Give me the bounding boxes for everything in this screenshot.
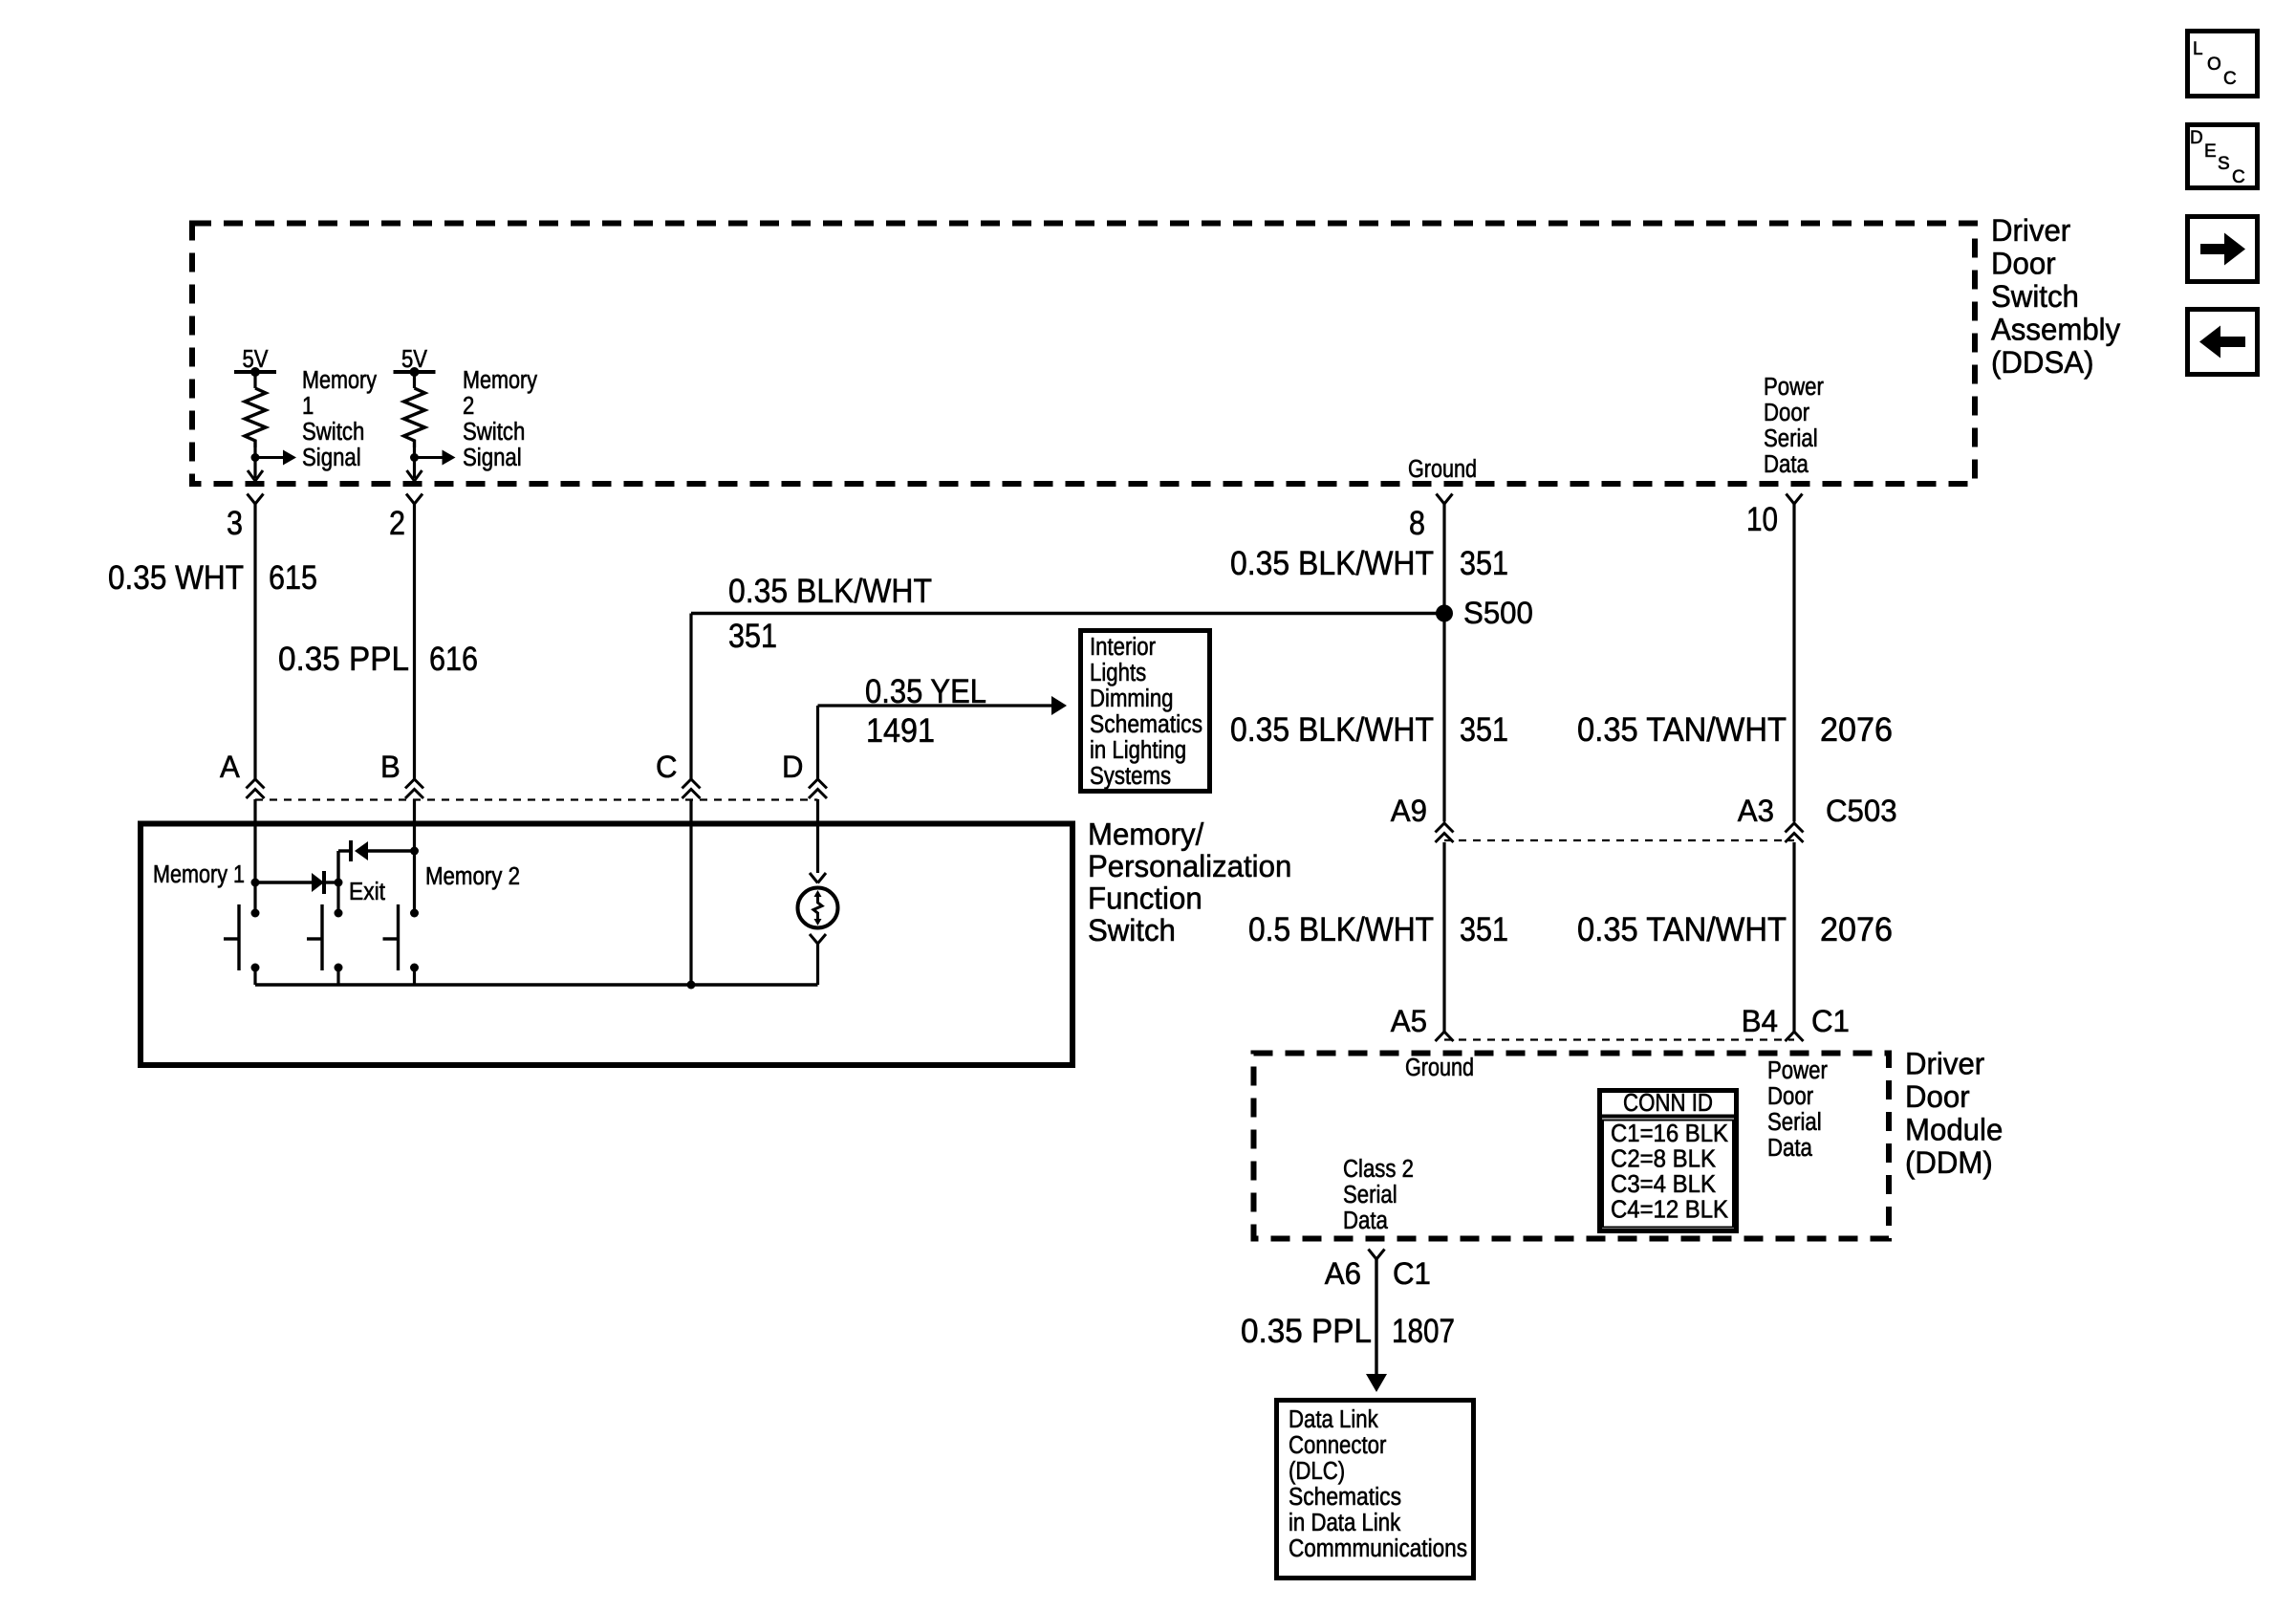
pin 2 connector fork bbox=[406, 494, 422, 505]
svg-text:2: 2 bbox=[463, 393, 474, 420]
illumination lamp bbox=[798, 888, 838, 928]
lamp connector fork lower bbox=[810, 934, 826, 944]
svg-text:2076: 2076 bbox=[1820, 711, 1893, 749]
resistor R2 Memory 2 pull-up bbox=[394, 370, 436, 374]
junction node Exit top / D1 bbox=[335, 879, 343, 887]
connector pin D chevrons bbox=[809, 779, 827, 789]
svg-text:Interior: Interior bbox=[1090, 634, 1156, 661]
legend box LOC bbox=[2188, 32, 2258, 97]
svg-text:Switch: Switch bbox=[1088, 913, 1176, 947]
svg-text:Memory 1: Memory 1 bbox=[153, 861, 245, 888]
svg-text:351: 351 bbox=[1460, 545, 1508, 582]
svg-text:2: 2 bbox=[389, 505, 405, 542]
wire A inside switch box bbox=[253, 799, 256, 913]
svg-text:C503: C503 bbox=[1826, 794, 1897, 828]
svg-text:B: B bbox=[380, 750, 401, 784]
connector A9 chevrons bbox=[1436, 823, 1454, 833]
wire D lower stub bbox=[816, 944, 819, 985]
svg-text:Schematics: Schematics bbox=[1090, 711, 1202, 738]
svg-text:Memory: Memory bbox=[463, 367, 537, 394]
svg-text:351: 351 bbox=[728, 618, 777, 655]
svg-text:Module: Module bbox=[1905, 1113, 2003, 1147]
svg-text:Assembly: Assembly bbox=[1991, 313, 2121, 347]
switch SW2 bottom stub bbox=[336, 968, 339, 985]
svg-text:Door: Door bbox=[1767, 1083, 1814, 1110]
connector pin B chevrons bbox=[405, 779, 423, 789]
switch SW3 bottom stub bbox=[413, 968, 416, 985]
switch SW2 Exit pushbutton contacts bbox=[336, 882, 339, 913]
svg-text:Serial: Serial bbox=[1764, 425, 1818, 452]
svg-text:D: D bbox=[2190, 128, 2203, 148]
svg-text:S500: S500 bbox=[1463, 596, 1533, 630]
wire B inside switch box bbox=[413, 799, 416, 913]
diode D1 cathode wire bbox=[324, 881, 338, 883]
svg-text:0.35 PPL: 0.35 PPL bbox=[1241, 1313, 1372, 1350]
connector row dashed line A-D bbox=[255, 798, 818, 800]
svg-text:Dimming: Dimming bbox=[1090, 686, 1174, 712]
junction node wire A / diode D1 bbox=[251, 879, 260, 887]
svg-text:0.35 TAN/WHT: 0.35 TAN/WHT bbox=[1577, 711, 1787, 749]
splice S500 bbox=[1436, 605, 1453, 622]
svg-text:Ground: Ground bbox=[1405, 1055, 1474, 1081]
wire 615 segment pin3-A bbox=[253, 504, 256, 779]
wire 351 segment A9-A5 bbox=[1442, 842, 1445, 1032]
pin 8 connector fork bbox=[1437, 494, 1453, 505]
CONN ID body frame bbox=[1603, 1121, 1733, 1228]
svg-text:E: E bbox=[2204, 142, 2217, 162]
svg-text:2076: 2076 bbox=[1820, 911, 1893, 948]
svg-text:Class 2: Class 2 bbox=[1343, 1156, 1414, 1183]
svg-text:Serial: Serial bbox=[1343, 1182, 1397, 1208]
svg-text:CONN ID: CONN ID bbox=[1623, 1090, 1713, 1117]
svg-text:Switch: Switch bbox=[1991, 279, 2079, 314]
connector A3 chevrons bbox=[1786, 823, 1804, 833]
svg-text:A: A bbox=[220, 750, 240, 784]
svg-text:0.35 BLK/WHT: 0.35 BLK/WHT bbox=[728, 573, 932, 610]
svg-text:B4: B4 bbox=[1742, 1004, 1778, 1038]
diode D1 bbox=[312, 873, 324, 892]
diode D2 corner wire bbox=[338, 849, 351, 852]
CONN ID table frame bbox=[1600, 1091, 1737, 1231]
svg-text:Systems: Systems bbox=[1090, 763, 1171, 790]
svg-text:in Lighting: in Lighting bbox=[1090, 737, 1186, 764]
svg-text:3: 3 bbox=[227, 505, 243, 542]
svg-text:1: 1 bbox=[302, 393, 314, 420]
wire 616 segment pin2-B bbox=[413, 504, 416, 779]
svg-text:Driver: Driver bbox=[1905, 1047, 1984, 1081]
svg-text:0.35 YEL: 0.35 YEL bbox=[865, 673, 986, 710]
svg-text:Door: Door bbox=[1764, 400, 1810, 426]
diode D2 anode wire bbox=[368, 849, 415, 852]
svg-text:Ground: Ground bbox=[1408, 456, 1477, 483]
Driver Door Switch Assembly (DDSA) dashed outline bbox=[192, 224, 1975, 485]
switch SW3 Memory 2 pushbutton bbox=[410, 909, 419, 918]
svg-text:1807: 1807 bbox=[1392, 1313, 1455, 1350]
svg-text:C1: C1 bbox=[1393, 1256, 1431, 1291]
svg-text:(DDM): (DDM) bbox=[1905, 1145, 1993, 1180]
svg-text:351: 351 bbox=[1460, 711, 1508, 749]
wire 351 horizontal branch S500-C bbox=[691, 612, 1444, 616]
wire 1491 segment D vertical bbox=[816, 706, 819, 779]
diode D1 anode wire bbox=[255, 881, 312, 883]
Memory/Personalization Function Switch box bbox=[141, 824, 1072, 1066]
svg-text:A9: A9 bbox=[1391, 794, 1427, 828]
svg-text:(DDSA): (DDSA) bbox=[1991, 345, 2094, 380]
svg-text:Personalization: Personalization bbox=[1088, 849, 1291, 883]
svg-text:0.35 BLK/WHT: 0.35 BLK/WHT bbox=[1230, 545, 1434, 582]
svg-text:Memory: Memory bbox=[302, 367, 377, 394]
svg-text:Driver: Driver bbox=[1991, 213, 2070, 248]
svg-text:C1: C1 bbox=[1811, 1004, 1850, 1038]
wire 1491 horizontal segment bbox=[818, 704, 1052, 707]
svg-text:0.35 WHT: 0.35 WHT bbox=[108, 559, 244, 597]
lamp connector fork upper bbox=[810, 873, 826, 883]
DDM connector dashed line bbox=[1444, 1038, 1794, 1040]
wire 1807 segment bbox=[1375, 1259, 1377, 1375]
svg-text:Power: Power bbox=[1764, 374, 1824, 401]
svg-text:C3=4 BLK: C3=4 BLK bbox=[1611, 1171, 1716, 1198]
svg-text:C2=8 BLK: C2=8 BLK bbox=[1611, 1146, 1716, 1173]
svg-text:Commmunications: Commmunications bbox=[1289, 1535, 1467, 1562]
Driver Door Module (DDM) dashed outline bbox=[1254, 1054, 1890, 1239]
wire D inside switch box upper bbox=[816, 799, 819, 873]
legend right-arrow button bbox=[2188, 217, 2258, 282]
wire C inside switch box bbox=[689, 799, 692, 985]
svg-text:Data: Data bbox=[1764, 451, 1809, 478]
wire 351 segment pin8-S500 bbox=[1442, 504, 1445, 614]
diode D2 bbox=[355, 841, 368, 860]
wire 2076 segment pin10-A3 bbox=[1792, 504, 1795, 822]
svg-text:Door: Door bbox=[1991, 247, 2056, 281]
connector pin C chevrons bbox=[682, 779, 701, 789]
switch common bottom wire bbox=[255, 983, 818, 986]
svg-text:616: 616 bbox=[429, 641, 478, 678]
svg-text:Memory/: Memory/ bbox=[1088, 817, 1204, 852]
arrow to Interior Lights Dimming schematic bbox=[1051, 696, 1067, 715]
svg-text:Data: Data bbox=[1343, 1208, 1389, 1234]
svg-text:O: O bbox=[2207, 54, 2221, 75]
svg-text:Power: Power bbox=[1767, 1057, 1828, 1084]
resistor R1 Memory 1 pull-up bbox=[234, 370, 276, 374]
svg-text:Switch: Switch bbox=[463, 419, 525, 446]
svg-text:in Data Link: in Data Link bbox=[1289, 1510, 1400, 1536]
svg-text:1491: 1491 bbox=[866, 712, 935, 750]
svg-text:0.35 PPL: 0.35 PPL bbox=[278, 641, 409, 678]
connector B4 fork bbox=[1786, 1032, 1804, 1041]
svg-text:10: 10 bbox=[1746, 501, 1778, 538]
svg-text:615: 615 bbox=[269, 559, 317, 597]
svg-text:Connector: Connector bbox=[1289, 1432, 1387, 1459]
legend box DESC bbox=[2188, 125, 2258, 188]
svg-text:S: S bbox=[2218, 154, 2230, 174]
svg-text:C: C bbox=[656, 750, 678, 784]
Exit riser wire to diode D2 bbox=[336, 851, 339, 882]
svg-text:Signal: Signal bbox=[463, 445, 522, 471]
pin 3 connector fork bbox=[248, 494, 264, 505]
svg-text:C1=16 BLK: C1=16 BLK bbox=[1611, 1121, 1728, 1147]
diode D2 cathode bar bbox=[349, 840, 353, 861]
svg-text:8: 8 bbox=[1409, 505, 1425, 542]
C503 dashed connector line bbox=[1444, 839, 1794, 841]
wire 1807 arrow to DLC bbox=[1366, 1374, 1387, 1392]
legend left-arrow button bbox=[2188, 310, 2258, 375]
svg-text:Data: Data bbox=[1767, 1135, 1813, 1162]
svg-text:C4=12 BLK: C4=12 BLK bbox=[1611, 1197, 1728, 1224]
switch SW1 Memory 1 pushbutton bbox=[251, 909, 260, 918]
svg-text:Schematics: Schematics bbox=[1289, 1484, 1401, 1511]
svg-text:Memory 2: Memory 2 bbox=[425, 863, 520, 890]
Data Link Connector callout box bbox=[1277, 1401, 1474, 1578]
svg-text:A5: A5 bbox=[1391, 1004, 1427, 1038]
svg-text:C: C bbox=[2223, 69, 2237, 89]
svg-text:Data Link: Data Link bbox=[1289, 1406, 1378, 1433]
wire 351 segment C vertical bbox=[689, 614, 692, 780]
svg-text:0.5 BLK/WHT: 0.5 BLK/WHT bbox=[1248, 911, 1434, 948]
wire 351 segment S500-A9 bbox=[1442, 614, 1445, 822]
svg-text:Lights: Lights bbox=[1090, 660, 1146, 686]
svg-text:A6: A6 bbox=[1325, 1256, 1361, 1291]
connector A6 fork bbox=[1369, 1250, 1385, 1260]
pin 10 connector fork bbox=[1787, 494, 1803, 505]
svg-text:L: L bbox=[2193, 39, 2203, 59]
svg-text:Exit: Exit bbox=[349, 879, 385, 905]
junction node wire B / diode D2 bbox=[410, 847, 419, 856]
svg-text:Switch: Switch bbox=[302, 419, 364, 446]
svg-text:351: 351 bbox=[1460, 911, 1508, 948]
svg-text:A3: A3 bbox=[1738, 794, 1774, 828]
svg-text:D: D bbox=[782, 750, 804, 784]
svg-text:Function: Function bbox=[1088, 882, 1202, 916]
svg-text:0.35 TAN/WHT: 0.35 TAN/WHT bbox=[1577, 911, 1787, 948]
wire 2076 segment A3-B4 bbox=[1792, 842, 1795, 1032]
svg-text:(DLC): (DLC) bbox=[1289, 1458, 1345, 1485]
Interior Lights Dimming Schematics callout box bbox=[1081, 631, 1210, 792]
connector pin A chevrons bbox=[247, 779, 265, 789]
switch SW1 bottom stub bbox=[253, 968, 256, 985]
svg-text:C: C bbox=[2232, 167, 2245, 187]
svg-text:0.35 BLK/WHT: 0.35 BLK/WHT bbox=[1230, 711, 1434, 749]
connector A5 fork bbox=[1436, 1032, 1454, 1041]
svg-text:Door: Door bbox=[1905, 1079, 1970, 1114]
svg-text:Serial: Serial bbox=[1767, 1109, 1822, 1136]
junction node common/C bbox=[687, 981, 696, 990]
svg-text:Signal: Signal bbox=[302, 445, 361, 471]
